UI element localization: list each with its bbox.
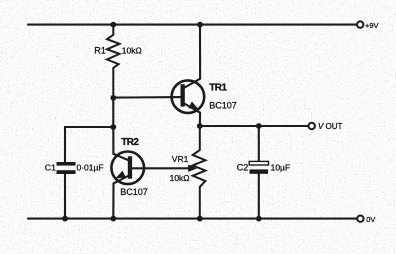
wire C2 top lead: [258, 126, 260, 161]
VR1 wiper arrowhead: [189, 165, 196, 171]
node top rail / R1: [110, 22, 116, 28]
wire 0V bottom rail: [28, 218, 357, 220]
svg-text:C2: C2: [237, 163, 249, 173]
node C1 wire / TR2 collector: [110, 124, 116, 130]
node R1 / TR2 collector / TR1 base: [110, 95, 116, 101]
node TR2 emitter / 0V rail: [110, 216, 116, 222]
svg-text:VR1: VR1: [172, 154, 189, 164]
wire TR2 emitter to 0V rail: [112, 183, 114, 218]
wire R1 node down to C1 node: [112, 98, 114, 127]
node V OUT line / C2: [256, 123, 262, 129]
potentiometer VR1: [193, 126, 206, 219]
terminal +9V: [357, 21, 363, 27]
svg-text:R1: R1: [94, 46, 106, 56]
wire +9V top supply rail: [28, 24, 357, 26]
svg-text:C1: C1: [45, 162, 56, 172]
svg-text:10kΩ: 10kΩ: [122, 46, 142, 56]
svg-text:TR2: TR2: [121, 137, 139, 148]
svg-text:BC107: BC107: [209, 101, 237, 111]
wire TR2 base to VR1 wiper: [132, 167, 190, 169]
wire C1 bottom lead to 0V rail: [64, 174, 66, 219]
svg-text:0V: 0V: [366, 215, 375, 224]
svg-text:10µF: 10µF: [271, 163, 291, 173]
node top rail / TR1 collector: [197, 22, 203, 28]
wire TR1 emitter to V OUT line: [199, 113, 201, 126]
wire TR1 base: [113, 96, 181, 99]
wire C1 top lead: [65, 127, 113, 162]
svg-text:BC107: BC107: [120, 187, 148, 197]
node TR1 emitter / VR1: [197, 123, 203, 129]
capacitor C1: [57, 162, 76, 174]
wire V OUT line: [200, 125, 309, 127]
node VR1 / 0V rail: [197, 216, 203, 222]
node C2 / 0V rail: [256, 216, 262, 222]
wire TR1 collector to +9V rail: [199, 25, 201, 79]
resistor R1: [107, 25, 120, 98]
wire C2 bottom lead to 0V rail: [258, 174, 260, 219]
svg-text:VOUT: VOUT: [318, 122, 343, 131]
transistor TR2: [111, 152, 144, 185]
svg-text:TR1: TR1: [209, 83, 227, 94]
capacitor C2 (electrolytic): [249, 161, 268, 173]
svg-text:10kΩ: 10kΩ: [170, 173, 190, 183]
terminal 0V: [357, 216, 363, 222]
transistor TR1: [172, 79, 205, 113]
node C1 / 0V rail: [62, 216, 68, 222]
svg-text:0·01µF: 0·01µF: [77, 163, 104, 173]
svg-text:+9V: +9V: [365, 21, 379, 30]
terminal V OUT: [309, 123, 315, 129]
wire TR2 collector: [112, 127, 114, 154]
